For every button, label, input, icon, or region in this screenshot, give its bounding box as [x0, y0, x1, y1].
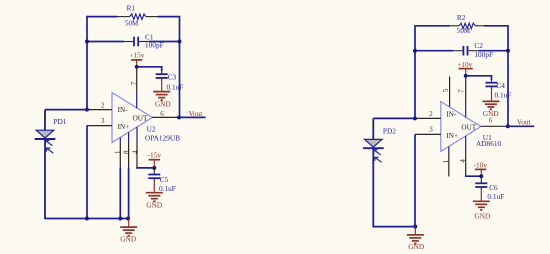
svg-text:C2: C2 — [474, 41, 483, 50]
capacitor C4 — [486, 80, 498, 89]
svg-text:7: 7 — [130, 81, 138, 85]
svg-text:+10v: +10v — [457, 60, 472, 69]
junction +10V node — [464, 74, 468, 78]
svg-text:2: 2 — [101, 101, 105, 109]
svg-text:4: 4 — [459, 159, 467, 163]
svg-text:+15v: +15v — [129, 50, 144, 59]
power +15V — [129, 50, 144, 66]
svg-text:IN-: IN- — [446, 110, 457, 118]
junction bottom node — [413, 225, 417, 229]
junction C1 right — [178, 40, 182, 44]
wire left rail — [414, 25, 416, 118]
junction -10V node — [479, 174, 483, 178]
wire top feedback right segment — [484, 25, 508, 27]
wire bottom rail — [373, 226, 416, 228]
svg-text:0.1uF: 0.1uF — [159, 184, 176, 193]
wire C2 row right — [478, 50, 508, 52]
op-amp U2 — [112, 93, 152, 143]
pin 7 wire — [465, 76, 467, 117]
wire left rail — [86, 16, 88, 110]
pin 4 wire — [466, 136, 482, 176]
pin 5 wire — [449, 77, 451, 102]
svg-text:R2: R2 — [457, 13, 466, 22]
junction C1 left — [85, 40, 89, 44]
svg-text:OUT: OUT — [461, 123, 476, 131]
svg-text:IN+: IN+ — [446, 132, 458, 140]
svg-text:0.1uF: 0.1uF — [487, 192, 504, 201]
svg-text:3: 3 — [101, 117, 105, 125]
pin 6 wire — [152, 116, 179, 118]
svg-text:C5: C5 — [160, 175, 169, 184]
wire output — [179, 116, 206, 118]
junction C2 left — [413, 49, 417, 53]
photodiode PD1 — [35, 110, 56, 219]
svg-text:GND: GND — [120, 235, 136, 244]
junction C2 right — [506, 49, 510, 53]
svg-text:GND: GND — [146, 201, 162, 210]
svg-text:C3: C3 — [168, 73, 177, 82]
pin 2 wire — [87, 109, 112, 111]
ground for C5 — [146, 182, 163, 210]
svg-text:R1: R1 — [127, 4, 136, 13]
wire IN+ to ground rail — [86, 126, 88, 219]
junction pin2 node — [413, 116, 417, 120]
svg-text:0.1uF: 0.1uF — [167, 83, 184, 92]
capacitor C2 — [453, 46, 478, 56]
wire output — [508, 125, 535, 127]
photodiode PD2 — [363, 118, 384, 226]
svg-text:GND: GND — [408, 242, 424, 251]
svg-text:0.1uF: 0.1uF — [495, 90, 512, 99]
ground for C6 — [473, 190, 491, 220]
wire top feedback left segment — [87, 16, 117, 18]
svg-text:5: 5 — [442, 88, 450, 92]
svg-text:8: 8 — [123, 150, 131, 154]
junction bottom IN+ — [85, 217, 89, 221]
svg-text:C4: C4 — [496, 81, 505, 90]
wire PD2 top — [373, 117, 415, 119]
wire C1 row left — [87, 41, 124, 43]
wire right rail — [179, 16, 181, 118]
wire +10V to C4 — [466, 76, 492, 80]
power -10V — [474, 160, 488, 176]
resistor R2 — [450, 23, 485, 28]
wire IN+ to ground rail — [414, 134, 416, 226]
pin 3 wire — [87, 125, 112, 127]
wire top feedback right segment — [158, 16, 180, 18]
resistor R1 — [117, 14, 158, 19]
junction +15V node — [135, 65, 139, 69]
svg-text:2: 2 — [429, 110, 433, 118]
svg-text:PD1: PD1 — [53, 117, 66, 126]
wire C1 row right — [149, 41, 180, 43]
pin 1 wire — [448, 147, 450, 152]
wire C2 row left — [415, 50, 453, 52]
svg-text:3: 3 — [429, 125, 433, 133]
pin 3 wire — [415, 133, 441, 135]
capacitor C6 — [475, 176, 487, 190]
svg-text:PD2: PD2 — [383, 127, 396, 136]
svg-text:U2: U2 — [147, 125, 156, 134]
svg-text:-10v: -10v — [474, 160, 488, 169]
svg-text:OUT: OUT — [133, 114, 148, 122]
svg-text:6: 6 — [489, 116, 493, 124]
pin 2 wire — [415, 117, 441, 119]
pin 6 wire — [481, 125, 508, 127]
wire top feedback left segment — [415, 25, 450, 27]
svg-text:6: 6 — [160, 110, 164, 118]
pin 8 wire — [128, 132, 130, 218]
svg-text:1: 1 — [114, 150, 122, 154]
ground for C3 — [153, 81, 171, 109]
svg-text:50M: 50M — [125, 19, 139, 27]
op-amp U1 — [441, 102, 481, 152]
power +10V — [457, 60, 473, 76]
wire right rail — [507, 25, 509, 126]
ground bottom right — [407, 227, 424, 251]
svg-text:7: 7 — [458, 89, 466, 93]
svg-text:AD8610: AD8610 — [476, 139, 501, 148]
capacitor C5 — [148, 168, 160, 182]
svg-text:4: 4 — [131, 150, 139, 154]
svg-text:50M: 50M — [457, 27, 471, 35]
wire PD1 top — [45, 109, 87, 111]
wire bottom rail — [44, 218, 129, 220]
junction -15V node — [152, 166, 156, 170]
pin 1 wire — [119, 137, 121, 218]
wire +15V to C3 — [137, 67, 162, 72]
svg-text:Vout: Vout — [189, 109, 203, 118]
svg-text:IN-: IN- — [118, 106, 129, 114]
junction output node — [506, 124, 510, 128]
svg-text:GND: GND — [475, 211, 491, 220]
power -15V — [148, 150, 162, 168]
svg-text:OPA129UB: OPA129UB — [145, 133, 180, 142]
junction bottom pin8 — [126, 217, 130, 221]
junction pin2 node — [85, 108, 89, 112]
ground for C4 — [482, 89, 499, 118]
capacitor C3 — [156, 71, 168, 80]
svg-text:Vout: Vout — [517, 117, 531, 126]
junction bottom pin1 — [118, 217, 122, 221]
svg-text:IN+: IN+ — [118, 123, 130, 131]
capacitor C1 — [124, 37, 149, 47]
ground bottom left — [120, 219, 137, 244]
svg-text:C6: C6 — [489, 183, 498, 192]
svg-text:-15v: -15v — [148, 150, 162, 159]
pin 7 wire — [136, 67, 138, 109]
svg-text:1: 1 — [442, 159, 450, 163]
svg-text:GND: GND — [155, 100, 171, 109]
junction output node — [177, 115, 181, 119]
pin 4 wire — [137, 127, 154, 168]
